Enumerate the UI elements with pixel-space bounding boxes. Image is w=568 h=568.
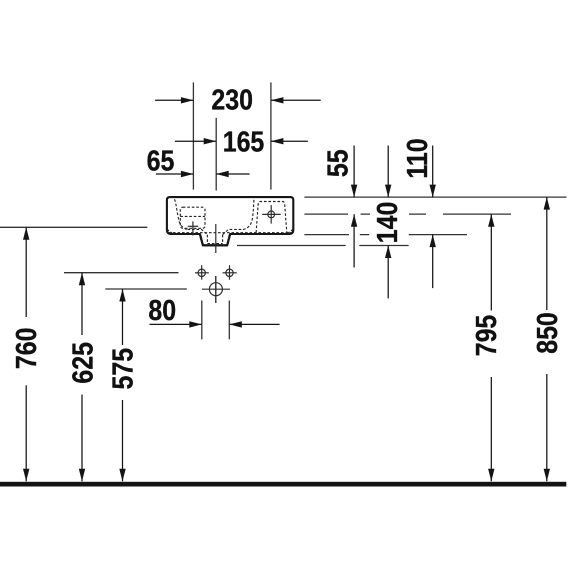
svg-text:230: 230 [211,84,253,116]
reference line 625 level [64,272,179,274]
reference line 795 level (tap height) [304,213,511,215]
sink funnel outline [200,234,230,245]
dimension 850 top arrow [546,197,548,310]
svg-text:55: 55 [322,149,354,177]
reference line 140 level (drain bottom) [237,245,409,247]
drain pipe hole [202,276,230,303]
corner chamfer left (dashed) [167,229,173,233]
dimension 575 top arrow [122,289,124,345]
dimension 625 bottom arrow [81,395,83,482]
dimension 625 top arrow [81,273,83,335]
svg-text:80: 80 [148,295,176,327]
funnel inner walls (dashed) [207,235,222,244]
reference line 575 level [105,288,187,290]
svg-text:65: 65 [147,145,175,177]
svg-text:575: 575 [107,348,139,390]
reference line 760 level [0,226,147,228]
extension line C (tap axis) [270,82,272,189]
svg-text:625: 625 [67,342,99,384]
dimension 575 bottom arrow [122,400,124,481]
dimension 760 bottom arrow [25,385,27,481]
dimension 80 left extension line [201,301,203,340]
svg-text:760: 760 [11,327,43,369]
dimension 110 top arrow [432,146,434,198]
overflow cross [188,221,199,235]
dimension 80 right arrow [229,323,279,325]
dimension 850 bottom arrow [546,374,548,481]
corner chamfer right (dashed) [288,229,294,233]
svg-text:140: 140 [372,202,404,244]
dimension 760 top arrow [25,227,27,317]
dimension 65 left arrow [156,173,194,175]
dimension 55 top arrow [353,146,355,198]
dimension 110 bottom arrow [432,235,434,289]
sink inner rim bottom line (dashed) [169,232,292,234]
dimension 65 right arrow [216,173,249,175]
extension line A (overflow axis) [192,82,194,189]
dimension 80 right extension line [228,301,230,340]
sink inner bowl right wall (dashed) [243,199,254,230]
drain centerline [215,224,217,303]
sink inner bowl left wall (dashed) [175,199,188,229]
extension line B (drain axis) [215,118,217,191]
dimension 55 bottom arrow [353,214,355,267]
dimension 165 left arrow [175,140,216,142]
overflow box divider (dashed) [180,215,205,217]
sink outer outline [167,197,293,245]
tap deck platform (dashed) [256,202,287,233]
dimension 230 right arrow [271,99,321,101]
overflow box (dashed) [180,207,205,228]
fixing hole left [195,265,209,280]
dimension 795 bottom arrow [490,377,492,481]
dimension 80 left arrow [150,323,202,325]
sink inner bowl bottom (dashed) [188,229,244,234]
reference line 850 level (sink top) [304,196,566,198]
svg-text:110: 110 [401,138,433,178]
dimension 230 left arrow [155,99,193,101]
svg-text:850: 850 [531,312,563,354]
dimension 140 top arrow [387,146,389,198]
dimension 140 bottom arrow [387,246,389,299]
dimension 165 right arrow [271,140,308,142]
fixing hole right [223,265,237,280]
tap hole crosshair [262,205,281,224]
floor line [0,482,566,487]
svg-text:165: 165 [223,126,265,158]
reference line 110 level (sink bottom) [304,234,467,236]
svg-text:795: 795 [471,315,503,357]
dimension 795 top arrow [490,214,492,310]
